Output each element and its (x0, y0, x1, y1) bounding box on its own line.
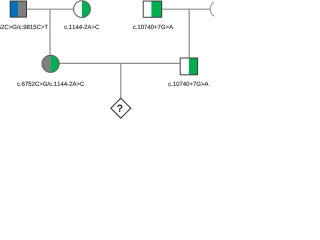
value label for II-2: c.10740+7G>A (168, 82, 208, 86)
individual III-1: fetus diamond with unknown status question mark (111, 98, 131, 118)
wire: marriage line couple II-1 / II-2 (59, 62, 180, 64)
wire: descent line from couple II-1/II-2 down to III-1 (120, 63, 122, 98)
individual I-2: female circle, right half green carrier (74, 1, 91, 18)
individual II-1: female circle, left half gray, right half green carrier (42, 55, 59, 72)
wire: marriage line couple I-1 / I-2 (27, 8, 74, 10)
wire: marriage line couple I-3 / I-4 (162, 8, 210, 10)
value label for II-1: c.6752C>G/c.1144-2A>C (17, 82, 84, 86)
wire: descent line from couple I-3/I-4 down to II-2 (188, 9, 190, 58)
value label for I-2: c.1144-2A>C (64, 25, 99, 29)
value label for I-3: c.10740+7G>A (133, 25, 173, 29)
individual II-2: male square, right half green carrier (180, 58, 197, 75)
value label for I-1: c.6752C>G/c.9815C>T (clipped at left image edge) (0, 25, 48, 29)
individual I-3: male square, right half green carrier (143, 1, 162, 17)
individual I-4: female circle, unaffected, clipped at right image edge (210, 1, 227, 18)
individual I-1: male square, left half blue carrier, right half gray (10, 1, 27, 18)
wire: descent line from couple I-1/I-2 down to II-1 (49, 9, 51, 55)
